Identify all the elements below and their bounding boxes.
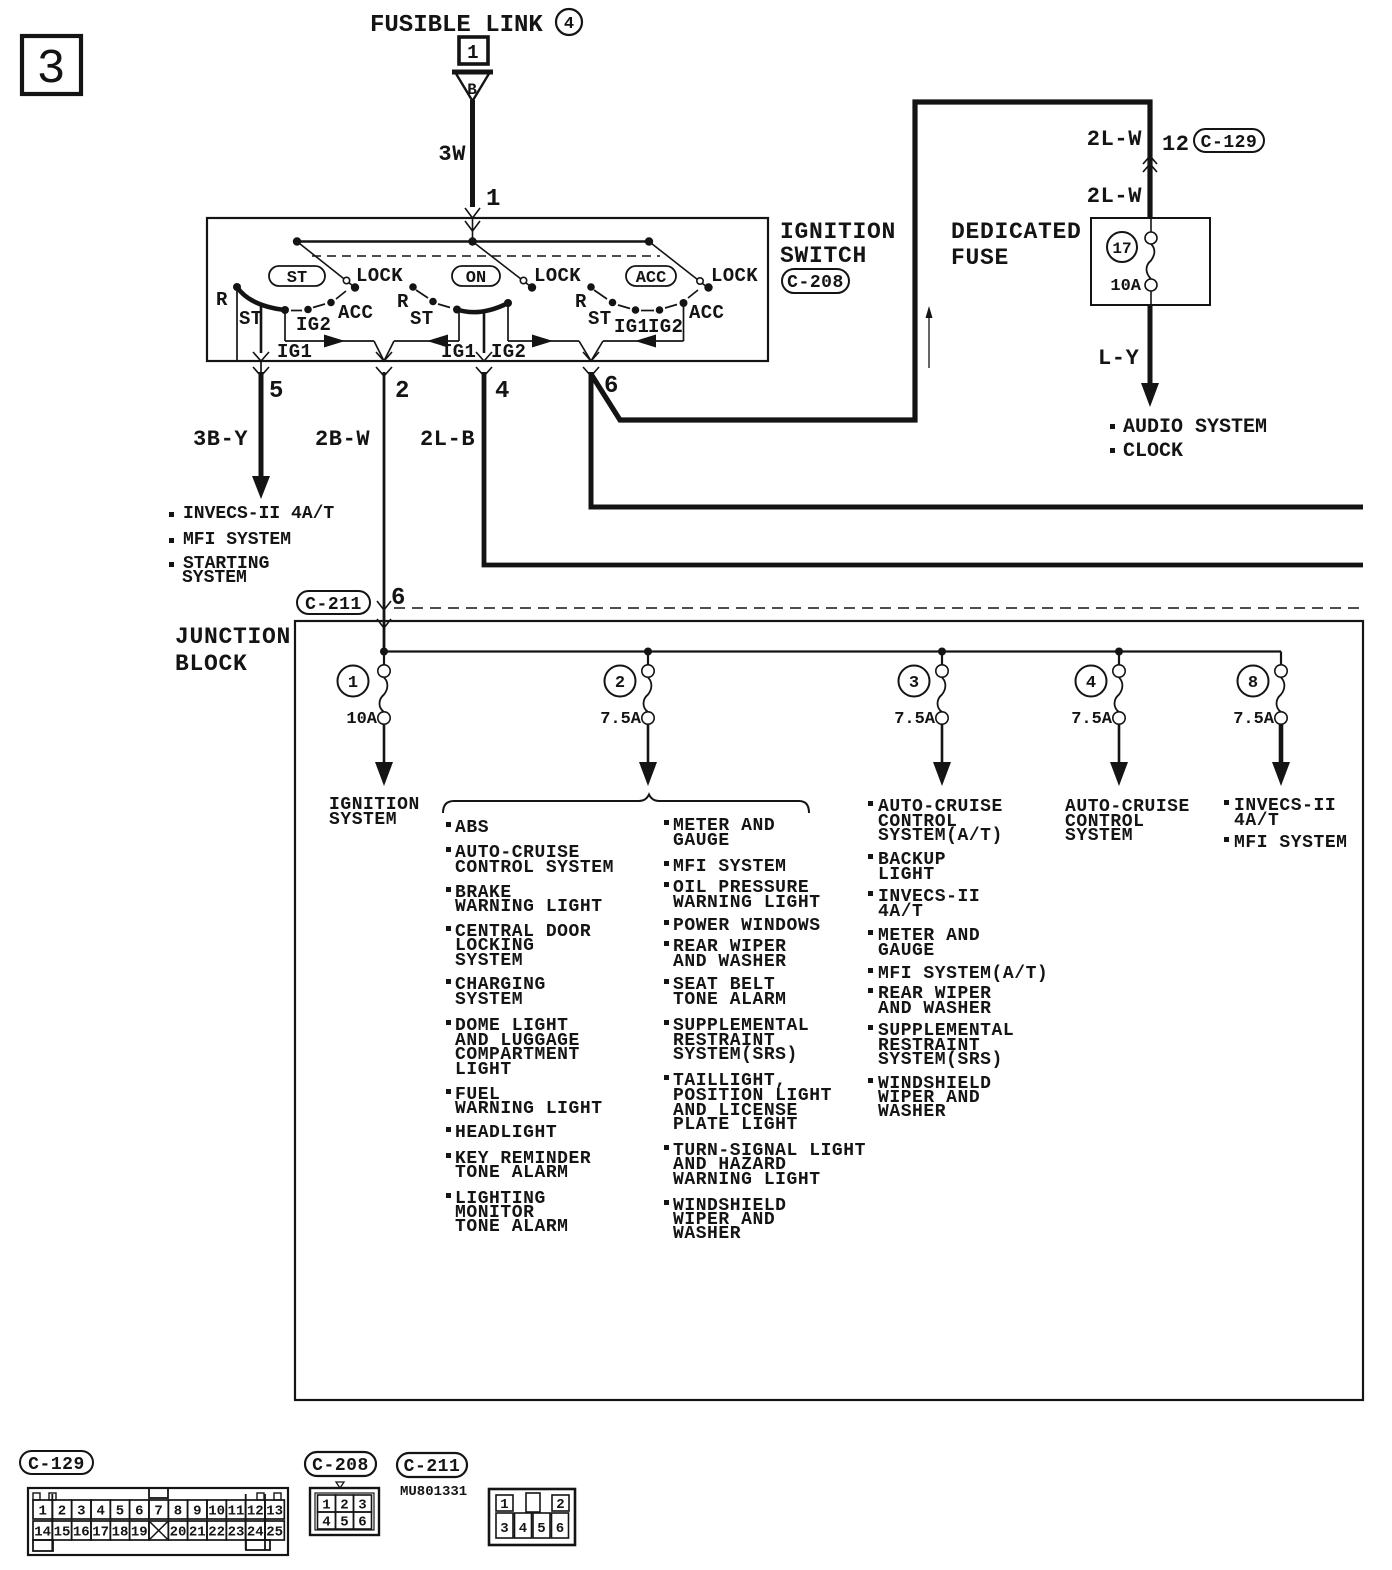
svg-text:GAUGE: GAUGE [673, 831, 730, 851]
svg-text:4A/T: 4A/T [1234, 811, 1279, 831]
fuse 4 (7.5A) [1118, 652, 1120, 666]
wire ACC contact to pin 6 [683, 303, 685, 341]
wire bus to LOCK contact (ON section) [473, 242, 531, 287]
ST position oval [269, 266, 325, 286]
svg-text:10: 10 [208, 1504, 225, 1520]
brace under fuse 2 [443, 795, 809, 814]
connector C-129 label [20, 1451, 93, 1474]
svg-text:SYSTEM: SYSTEM [455, 951, 523, 971]
svg-text:IGNITION: IGNITION [780, 219, 896, 245]
contact ACC (ST section) [313, 304, 325, 308]
svg-text:ST: ST [287, 269, 307, 288]
pin 5 crossing chevrons [253, 352, 269, 361]
svg-text:MU801331: MU801331 [400, 1484, 467, 1500]
svg-text:2: 2 [58, 1504, 66, 1520]
svg-text:17: 17 [1112, 240, 1131, 258]
contact IG2 (ST section) [291, 310, 302, 312]
junction bus wire [384, 650, 1281, 652]
contact ST (ON section) [416, 290, 428, 298]
svg-text:3: 3 [500, 1521, 508, 1537]
svg-text:SYSTEM(SRS): SYSTEM(SRS) [673, 1045, 798, 1065]
svg-text:ABS: ABS [455, 818, 489, 838]
svg-text:9: 9 [193, 1504, 201, 1520]
contact ACC (ACC section) [665, 305, 677, 309]
svg-text:TONE ALARM: TONE ALARM [455, 1163, 569, 1183]
svg-text:4: 4 [1086, 674, 1096, 693]
svg-text:3: 3 [77, 1504, 85, 1520]
svg-text:24: 24 [247, 1525, 264, 1541]
svg-text:LOCK: LOCK [534, 265, 581, 287]
svg-text:1: 1 [38, 1504, 46, 1520]
svg-text:1: 1 [322, 1498, 330, 1514]
svg-text:10A: 10A [346, 710, 377, 729]
svg-text:18: 18 [112, 1525, 129, 1541]
wire fuse 1 output arrow [383, 724, 386, 765]
pin 1 entry chevrons [465, 208, 480, 218]
pin 4 crossing chevrons [476, 352, 492, 361]
svg-text:2: 2 [395, 378, 409, 405]
svg-text:SYSTEM(SRS): SYSTEM(SRS) [878, 1050, 1003, 1070]
svg-text:SWITCH: SWITCH [780, 243, 867, 269]
circled fuse number 17 [1107, 232, 1137, 262]
svg-text:INVECS-II 4A/T: INVECS-II 4A/T [183, 504, 334, 524]
svg-text:IG1: IG1 [277, 341, 312, 363]
svg-text:WASHER: WASHER [878, 1102, 946, 1122]
svg-text:IG1: IG1 [441, 341, 476, 363]
svg-text:HEADLIGHT: HEADLIGHT [455, 1123, 557, 1143]
svg-text:FUSIBLE LINK: FUSIBLE LINK [370, 12, 543, 39]
svg-text:11: 11 [228, 1504, 245, 1520]
wire IG2 (ON) to pin 6 [507, 303, 509, 341]
svg-text:5: 5 [269, 378, 283, 405]
svg-text:4A/T: 4A/T [878, 902, 923, 922]
svg-text:B: B [467, 81, 477, 99]
svg-text:22: 22 [208, 1525, 225, 1541]
contact R (ST section) [233, 283, 241, 291]
svg-text:10A: 10A [1110, 277, 1141, 296]
svg-text:5: 5 [340, 1515, 348, 1531]
svg-text:2B-W: 2B-W [315, 427, 370, 452]
svg-text:C-211: C-211 [404, 1457, 461, 1477]
wiper arc (ST section) [237, 287, 285, 310]
connector C-129 wire traces [51, 1494, 53, 1550]
node bus-center [468, 237, 476, 245]
wire bus to LOCK contact (ACC section) [649, 242, 707, 288]
wire bus to LOCK contact (ST section) [297, 242, 353, 287]
contact R (ACC section) [587, 283, 595, 291]
svg-text:2: 2 [615, 674, 625, 693]
fuse 8 (7.5A) [1275, 665, 1287, 677]
svg-text:R: R [575, 291, 587, 313]
dashed detent line [312, 255, 660, 257]
ACC position oval [626, 266, 676, 286]
dedicated fuse box [1091, 218, 1210, 305]
svg-text:4: 4 [519, 1521, 527, 1537]
connector C-208 body [336, 1482, 344, 1488]
svg-text:23: 23 [228, 1525, 245, 1541]
ON position oval [452, 266, 500, 286]
svg-text:ON: ON [466, 269, 486, 288]
svg-text:5: 5 [116, 1504, 124, 1520]
svg-text:4: 4 [96, 1504, 104, 1520]
connector C-208 label [305, 1452, 376, 1476]
svg-text:MFI SYSTEM: MFI SYSTEM [673, 857, 787, 877]
svg-text:13: 13 [266, 1504, 283, 1520]
node fuse3 tap [938, 648, 946, 656]
circled 4 [556, 9, 582, 35]
svg-text:MFI SYSTEM: MFI SYSTEM [1234, 833, 1348, 853]
junction block box [295, 621, 1363, 1400]
svg-text:2L-B: 2L-B [420, 427, 475, 452]
svg-text:7.5A: 7.5A [1233, 710, 1275, 729]
svg-text:ST: ST [410, 308, 434, 330]
svg-text:ACC: ACC [338, 302, 373, 324]
svg-text:1: 1 [500, 1497, 508, 1513]
svg-text:1: 1 [467, 42, 479, 64]
connector C-129 pin cells row 1 [33, 1500, 52, 1519]
svg-text:SYSTEM: SYSTEM [182, 568, 247, 588]
wire 2L-B from pin 4 [484, 372, 1363, 565]
svg-text:12: 12 [1162, 132, 1190, 157]
svg-text:ST: ST [588, 308, 612, 330]
svg-text:POWER WINDOWS: POWER WINDOWS [673, 916, 821, 936]
current direction arrow [928, 312, 930, 368]
svg-text:4: 4 [322, 1515, 330, 1531]
svg-text:6: 6 [556, 1521, 564, 1537]
svg-text:2L-W: 2L-W [1087, 184, 1142, 209]
pin 2 crossing chevrons [376, 352, 392, 361]
svg-text:SYSTEM(A/T): SYSTEM(A/T) [878, 826, 1003, 846]
svg-text:3: 3 [37, 43, 66, 97]
svg-text:C-129: C-129 [28, 1455, 85, 1475]
wire from pin 6 to dedicated fuse [591, 102, 1150, 420]
svg-text:14: 14 [34, 1525, 51, 1541]
fuse 8 load list [1224, 800, 1229, 805]
fusible link box 1 [459, 37, 488, 64]
wire fuse 8 output arrow [1279, 724, 1284, 765]
svg-text:R: R [397, 291, 409, 313]
svg-text:25: 25 [266, 1525, 283, 1541]
pin 6 crossing chevrons [583, 352, 599, 361]
svg-text:7: 7 [154, 1504, 162, 1520]
wire IG1 (ON) to pin 2 [458, 310, 460, 341]
svg-text:8: 8 [174, 1504, 182, 1520]
svg-text:SYSTEM: SYSTEM [1065, 826, 1133, 846]
svg-text:C-208: C-208 [312, 1456, 369, 1476]
svg-text:PLATE LIGHT: PLATE LIGHT [673, 1115, 798, 1135]
wire ST contact to pin 5 [260, 304, 263, 353]
svg-text:3B-Y: 3B-Y [193, 427, 248, 452]
node fuse1 tap [380, 648, 388, 656]
wire fuse 2 output arrow [647, 724, 650, 765]
svg-text:2L-W: 2L-W [1087, 127, 1142, 152]
svg-text:IG2: IG2 [491, 341, 526, 363]
wire L-Y to audio [1148, 305, 1153, 385]
svg-text:GAUGE: GAUGE [878, 941, 935, 961]
svg-text:6: 6 [135, 1504, 143, 1520]
contact LOCK (ON section) [528, 283, 536, 291]
svg-text:C-129: C-129 [1201, 133, 1258, 153]
svg-text:C-208: C-208 [787, 273, 844, 293]
contact R (ON section) [409, 283, 417, 291]
svg-text:MFI SYSTEM: MFI SYSTEM [183, 530, 291, 550]
svg-text:20: 20 [170, 1525, 187, 1541]
svg-text:IG1: IG1 [614, 316, 649, 338]
svg-text:SYSTEM: SYSTEM [455, 990, 523, 1010]
wire fuse 4 output arrow [1118, 724, 1121, 765]
svg-text:WASHER: WASHER [673, 1224, 741, 1244]
wiper arc (ON section) [457, 303, 508, 312]
svg-text:3: 3 [909, 674, 919, 693]
svg-text:CLOCK: CLOCK [1123, 440, 1183, 463]
connector ref C-211 [297, 591, 370, 614]
svg-text:1: 1 [348, 674, 358, 693]
svg-text:7.5A: 7.5A [894, 710, 936, 729]
svg-text:LOCK: LOCK [711, 265, 758, 287]
contact LOCK (ST section) [351, 283, 359, 291]
svg-text:ST: ST [239, 308, 263, 330]
fuse 1 (10A) [383, 652, 385, 666]
svg-text:LOCK: LOCK [356, 265, 403, 287]
wire 3B-Y from pin 5 [259, 372, 264, 478]
contact ST (ACC section) [594, 290, 607, 299]
pin 6 funnel [579, 341, 591, 361]
connector C-129 pin cells row 2 [33, 1521, 52, 1540]
contact LOCK (ACC section) [704, 283, 712, 291]
svg-text:L-Y: L-Y [1098, 346, 1140, 371]
svg-text:FUSE: FUSE [951, 245, 1009, 271]
svg-text:12: 12 [247, 1504, 264, 1520]
svg-text:3: 3 [358, 1498, 366, 1514]
svg-text:SYSTEM: SYSTEM [329, 810, 397, 830]
svg-text:LIGHT: LIGHT [878, 865, 935, 885]
svg-text:AND WASHER: AND WASHER [673, 952, 787, 972]
svg-text:MFI SYSTEM(A/T): MFI SYSTEM(A/T) [878, 964, 1048, 984]
fuse 2 load list column 1 [446, 822, 451, 827]
audio system list [1110, 424, 1115, 429]
wire pin1 to bus [472, 218, 474, 241]
svg-text:15: 15 [54, 1525, 71, 1541]
wire fuse 3 output arrow [941, 724, 944, 765]
node fuse2 tap [644, 648, 652, 656]
svg-text:5: 5 [537, 1521, 545, 1537]
svg-text:3W: 3W [438, 142, 466, 167]
battery triangle B [455, 72, 490, 101]
svg-text:16: 16 [73, 1525, 90, 1541]
fuse 17 element [1150, 218, 1152, 233]
fuse 2 load list column 2 [664, 820, 669, 825]
svg-text:19: 19 [131, 1525, 148, 1541]
svg-text:IG2: IG2 [296, 314, 331, 336]
contact IG1 (ACC section) [618, 305, 630, 309]
svg-text:2: 2 [340, 1498, 348, 1514]
fuse 3 (7.5A) [941, 652, 943, 666]
fuse 2 (7.5A) [647, 652, 649, 666]
connector C-129 body [28, 1488, 288, 1555]
svg-text:AUDIO SYSTEM: AUDIO SYSTEM [1123, 416, 1267, 439]
svg-text:4: 4 [564, 15, 574, 34]
svg-text:4: 4 [495, 378, 509, 405]
node bus-left [293, 237, 301, 245]
wire 3W [470, 100, 475, 207]
svg-text:ACC: ACC [636, 269, 667, 288]
svg-text:ACC: ACC [689, 302, 724, 324]
svg-text:WARNING LIGHT: WARNING LIGHT [673, 1170, 821, 1190]
svg-text:21: 21 [189, 1525, 206, 1541]
svg-text:LIGHT: LIGHT [455, 1060, 512, 1080]
svg-text:7.5A: 7.5A [1071, 710, 1113, 729]
svg-text:1: 1 [486, 186, 500, 213]
svg-text:WARNING LIGHT: WARNING LIGHT [455, 1099, 603, 1119]
system list pin 5 [169, 512, 174, 517]
node bus-right [645, 237, 653, 245]
C-211 crossing chevrons [377, 601, 391, 610]
svg-text:C-211: C-211 [305, 595, 362, 615]
wire pin 6 lower branch [591, 372, 1363, 507]
svg-text:DEDICATED: DEDICATED [951, 219, 1082, 245]
svg-text:R: R [216, 289, 228, 311]
page number box 3 [22, 36, 81, 94]
connector C-211 body [489, 1489, 575, 1545]
svg-text:AND WASHER: AND WASHER [878, 999, 992, 1019]
svg-text:WARNING LIGHT: WARNING LIGHT [455, 897, 603, 917]
dashed connector boundary [394, 607, 1363, 609]
svg-text:8: 8 [1248, 674, 1258, 693]
connector C-211 label [397, 1453, 467, 1477]
svg-text:7.5A: 7.5A [600, 710, 642, 729]
svg-text:WARNING LIGHT: WARNING LIGHT [673, 893, 821, 913]
svg-text:TONE ALARM: TONE ALARM [455, 1217, 569, 1237]
ignition switch box [207, 218, 768, 361]
connector crossing chevrons C-129 [1143, 156, 1157, 164]
svg-text:17: 17 [92, 1525, 109, 1541]
wire 2B-W from pin 2 [383, 372, 386, 652]
wire R contact down [236, 287, 238, 360]
svg-text:2: 2 [556, 1497, 564, 1513]
wire IG1 contact to pin 2 [284, 310, 286, 341]
svg-text:BLOCK: BLOCK [175, 651, 248, 677]
fuse 3 load list [868, 801, 873, 806]
connector ref C-208 [782, 269, 849, 293]
svg-text:6: 6 [358, 1515, 366, 1531]
pin 2 funnel [374, 341, 384, 361]
contact IG2 (ACC section) [641, 310, 654, 312]
svg-text:JUNCTION: JUNCTION [175, 624, 291, 650]
node fuse4 tap [1115, 648, 1123, 656]
svg-text:TONE ALARM: TONE ALARM [673, 990, 787, 1010]
svg-text:CONTROL SYSTEM: CONTROL SYSTEM [455, 858, 614, 878]
wire ON wiper to pin 4 [483, 312, 486, 353]
svg-text:IG2: IG2 [648, 316, 683, 338]
connector ref C-129 [1194, 129, 1264, 152]
bus wire inside switch [297, 240, 649, 243]
